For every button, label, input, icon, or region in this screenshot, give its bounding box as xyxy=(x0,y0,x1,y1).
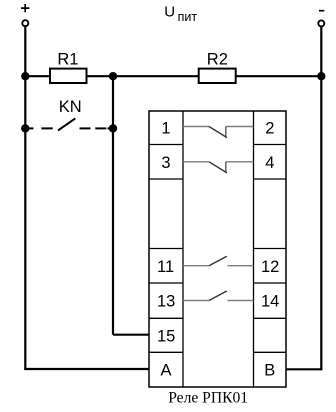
label U пит xyxy=(164,4,197,24)
wire lead into pin A xyxy=(24,368,149,370)
wire lead into pin B xyxy=(286,368,322,370)
wire bus from R2 to - rail xyxy=(236,75,322,77)
svg-text:14: 14 xyxy=(261,293,279,311)
svg-text:15: 15 xyxy=(157,327,175,345)
terminal - minus sign xyxy=(319,10,324,12)
contact 1-2 normally-closed xyxy=(183,127,254,138)
relay left column cell dividers xyxy=(149,145,183,353)
svg-text:пит: пит xyxy=(178,10,198,24)
resistor R2 xyxy=(199,69,236,83)
junction KN right node xyxy=(109,124,117,132)
svg-text:12: 12 xyxy=(261,258,279,276)
svg-text:11: 11 xyxy=(157,258,174,276)
svg-text:1: 1 xyxy=(161,120,170,138)
resistor R1 xyxy=(50,69,87,83)
wire coil branch vertical from bus to pin 15 level xyxy=(112,76,114,335)
terminal + plus sign xyxy=(21,4,29,12)
junction KN left node xyxy=(21,124,29,132)
svg-text:2: 2 xyxy=(265,120,274,138)
relay right terminal column inner edge xyxy=(253,111,255,387)
svg-text:A: A xyxy=(161,362,172,380)
terminal - circle xyxy=(318,20,324,26)
contact 3-4 normally-closed xyxy=(183,162,254,173)
junction node - rail / R2 xyxy=(317,72,325,80)
svg-text:R2: R2 xyxy=(207,51,228,69)
svg-text:B: B xyxy=(264,362,275,380)
switch KN dashed contact line xyxy=(25,127,113,129)
junction node R1-R2 / coil branch xyxy=(109,72,117,80)
contact 11-12 normally-open xyxy=(183,256,254,266)
junction node + rail / R1 / KN branch xyxy=(21,72,29,80)
relay U1 outline box xyxy=(149,111,286,387)
svg-text:3: 3 xyxy=(161,154,170,172)
wire bus from + rail to R1 xyxy=(25,75,50,77)
wire - vertical rail xyxy=(320,26,322,369)
svg-text:4: 4 xyxy=(265,154,274,172)
switch KN blade xyxy=(58,118,75,130)
wire bus from R1 to R2 xyxy=(87,75,199,77)
wire lead into pin 15 xyxy=(113,334,149,336)
terminal + circle xyxy=(22,20,28,26)
contact 13-14 normally-open xyxy=(183,291,254,301)
svg-text:U: U xyxy=(164,4,175,21)
svg-text:13: 13 xyxy=(157,293,175,311)
svg-text:R1: R1 xyxy=(57,51,78,69)
svg-text:Реле РПК01: Реле РПК01 xyxy=(168,390,248,407)
relay left terminal column inner edge xyxy=(182,111,184,387)
svg-text:KN: KN xyxy=(59,98,82,116)
wire + vertical rail xyxy=(24,26,26,369)
relay right column cell dividers xyxy=(254,145,287,353)
